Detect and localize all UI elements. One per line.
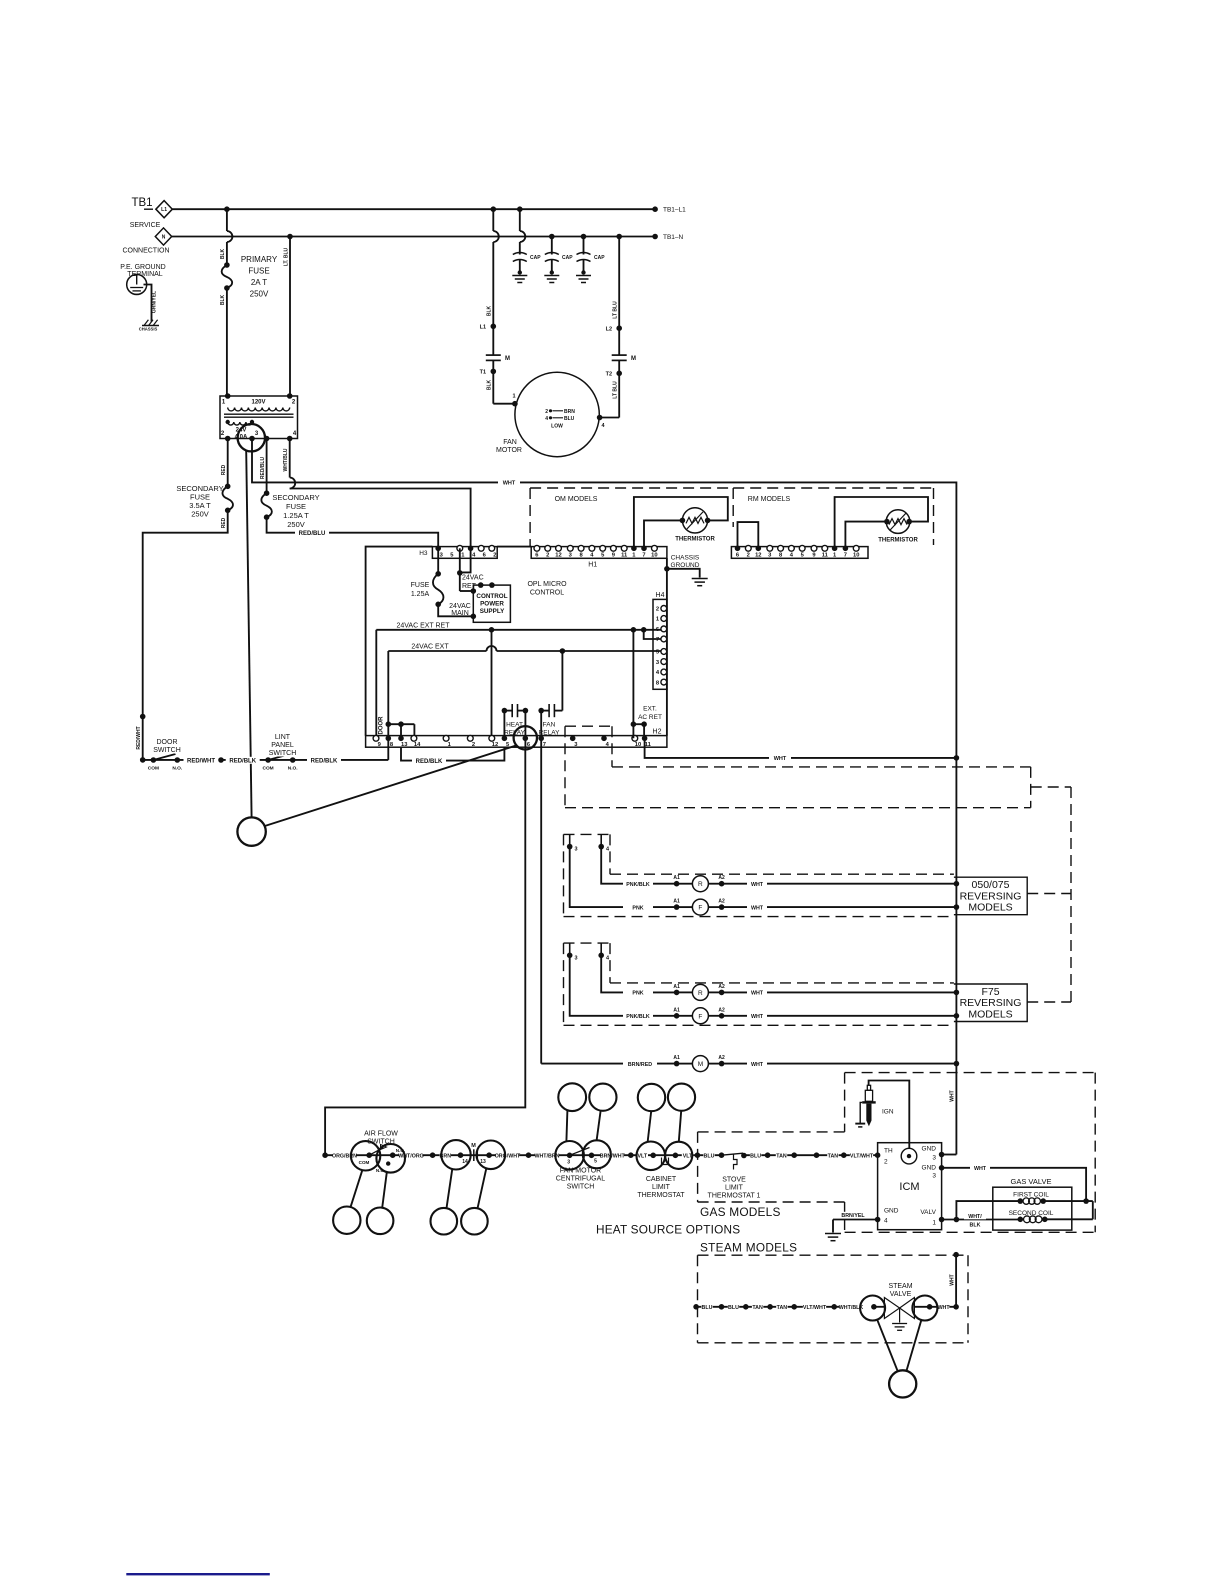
wire riser H2 pin 8 / door bbox=[387, 651, 389, 747]
gas valve box bbox=[993, 1187, 1072, 1230]
terminal L1 diamond bbox=[156, 201, 172, 218]
svg-text:BLU: BLU bbox=[564, 416, 575, 422]
splice circle bbox=[237, 817, 265, 845]
svg-text:12: 12 bbox=[755, 553, 761, 559]
svg-text:1.25A: 1.25A bbox=[411, 591, 430, 598]
ground symbol chassis bbox=[692, 578, 708, 580]
svg-text:L1: L1 bbox=[161, 207, 167, 213]
wire gas valve common bbox=[1092, 1201, 1094, 1219]
svg-text:BLU: BLU bbox=[702, 1305, 713, 1311]
contact M right bbox=[612, 354, 627, 356]
svg-text:WHT: WHT bbox=[938, 1305, 951, 1311]
relay coil F line bbox=[570, 955, 677, 1016]
cabinet limit thermostat bbox=[637, 1142, 666, 1171]
svg-text:VLT: VLT bbox=[637, 1153, 647, 1159]
control power supply box bbox=[473, 585, 510, 622]
svg-text:2: 2 bbox=[545, 409, 548, 415]
ICM pin GND 4 bbox=[875, 1217, 881, 1223]
svg-text:COM: COM bbox=[262, 766, 273, 772]
node L1 tap for primary fuse bbox=[224, 206, 230, 212]
stove limit thermostat bbox=[722, 1153, 744, 1155]
primary fuse F1 2A bbox=[224, 262, 230, 268]
svg-text:SWITCH: SWITCH bbox=[269, 750, 297, 757]
svg-text:BLK: BLK bbox=[220, 294, 226, 305]
wire 24VAC EXT RET bbox=[376, 629, 661, 631]
wire branch to H4 pin 7 bbox=[644, 630, 661, 639]
svg-text:CABINET: CABINET bbox=[646, 1176, 677, 1183]
svg-text:TERMINAL: TERMINAL bbox=[127, 271, 163, 278]
ICM pin GND 3 lower bbox=[939, 1165, 945, 1171]
svg-text:CONTROL: CONTROL bbox=[530, 590, 564, 597]
svg-text:SWITCH: SWITCH bbox=[367, 1139, 395, 1146]
svg-text:24VAC EXT: 24VAC EXT bbox=[411, 643, 449, 650]
svg-text:10: 10 bbox=[853, 553, 859, 559]
svg-text:LT BLU: LT BLU bbox=[613, 301, 619, 319]
plug pin 3 bbox=[569, 943, 571, 955]
svg-text:SERVICE: SERVICE bbox=[130, 222, 161, 229]
wire GND3 to WHT bus bbox=[942, 1154, 957, 1156]
wire H2 pin7 down bbox=[540, 747, 542, 1063]
svg-text:TB1–L1: TB1–L1 bbox=[663, 207, 686, 214]
svg-text:A2: A2 bbox=[718, 899, 725, 905]
wire RED to door switch bbox=[143, 510, 228, 760]
svg-text:TH: TH bbox=[884, 1148, 893, 1155]
svg-text:CAP: CAP bbox=[530, 255, 541, 261]
svg-text:SWITCH: SWITCH bbox=[567, 1184, 595, 1191]
svg-text:OPL MICRO: OPL MICRO bbox=[527, 581, 567, 588]
wire RM pin7 to RM thermistor bbox=[845, 522, 887, 549]
svg-text:11: 11 bbox=[645, 742, 652, 748]
dashed box OM MODELS bbox=[529, 488, 531, 547]
svg-text:WHT: WHT bbox=[774, 756, 787, 762]
svg-text:CHASSIS: CHASSIS bbox=[671, 555, 700, 562]
node RED/WHT bbox=[140, 714, 146, 720]
svg-text:THERMISTOR: THERMISTOR bbox=[878, 538, 918, 544]
callout leader line from pin 6 to splice circle bbox=[265, 745, 517, 826]
svg-text:10: 10 bbox=[635, 742, 641, 748]
steam valve left terminal bbox=[860, 1296, 885, 1321]
gas chain BLU TAN TAN VLT/WHT bbox=[750, 1153, 761, 1159]
wire BLK down with hop over N bbox=[226, 209, 228, 231]
svg-text:WHT: WHT bbox=[751, 1014, 764, 1020]
svg-text:GND: GND bbox=[884, 1208, 899, 1215]
svg-text:THERMOSTAT: THERMOSTAT bbox=[637, 1192, 685, 1199]
svg-text:CONNECTION: CONNECTION bbox=[122, 248, 169, 255]
svg-text:CENTRIFUGAL: CENTRIFUGAL bbox=[556, 1176, 606, 1183]
svg-text:BLU: BLU bbox=[704, 1153, 715, 1159]
svg-text:T2: T2 bbox=[606, 372, 612, 378]
svg-text:WHT/BLU: WHT/BLU bbox=[283, 448, 289, 471]
svg-text:F75: F75 bbox=[981, 986, 999, 998]
gas chain BLU bbox=[703, 1153, 714, 1159]
node L1 motor bbox=[491, 324, 497, 330]
wire H1 pin7 to OM thermistor bbox=[644, 520, 682, 548]
wire L1 bus bbox=[172, 208, 655, 210]
fan motor circle bbox=[515, 372, 599, 456]
svg-text:12: 12 bbox=[492, 742, 498, 748]
svg-text:THERMISTOR: THERMISTOR bbox=[675, 537, 715, 543]
transformer pin 1 bbox=[225, 393, 231, 399]
svg-text:PNK/BLK: PNK/BLK bbox=[626, 1014, 650, 1020]
callout circle at transformer pin 3 bbox=[238, 424, 265, 451]
svg-text:3: 3 bbox=[567, 1159, 570, 1165]
svg-text:LT. BLU: LT. BLU bbox=[284, 247, 290, 266]
svg-text:L1: L1 bbox=[480, 325, 486, 331]
ICM pin GND 3 upper bbox=[939, 1152, 945, 1158]
chassis ground symbol bbox=[142, 325, 159, 327]
fan motor centrifugal switch bbox=[555, 1141, 584, 1170]
connector H1 box bbox=[531, 547, 667, 559]
svg-text:BRN/WHT: BRN/WHT bbox=[600, 1153, 626, 1159]
svg-text:BLK: BLK bbox=[970, 1222, 981, 1228]
gas chain line bbox=[697, 1154, 721, 1156]
footer rule bbox=[126, 1573, 269, 1575]
svg-text:2A T: 2A T bbox=[251, 278, 267, 287]
wire N bus bbox=[172, 236, 655, 238]
svg-text:FAN MOTOR: FAN MOTOR bbox=[560, 1168, 601, 1175]
svg-text:DOOR: DOOR bbox=[379, 716, 385, 735]
svg-text:WHT/ORG: WHT/ORG bbox=[398, 1153, 424, 1159]
air flow switch bbox=[351, 1141, 380, 1170]
plug pin 4 bbox=[600, 834, 602, 846]
svg-text:WHT: WHT bbox=[950, 1090, 956, 1101]
steam valve symbol bbox=[874, 1306, 885, 1308]
air flow switch connector callouts bbox=[333, 1207, 360, 1234]
svg-text:R: R bbox=[698, 990, 703, 997]
svg-text:LIMIT: LIMIT bbox=[725, 1185, 744, 1192]
node N tap for transformer bbox=[287, 234, 293, 240]
node TB1-N bbox=[652, 234, 658, 240]
svg-text:3: 3 bbox=[932, 1155, 936, 1162]
svg-text:250V: 250V bbox=[250, 290, 269, 299]
svg-text:L2: L2 bbox=[606, 326, 612, 332]
svg-text:11: 11 bbox=[822, 553, 829, 559]
relay coil F line bbox=[570, 847, 677, 908]
svg-text:24VAC: 24VAC bbox=[462, 575, 484, 582]
wire door switch line bbox=[143, 759, 389, 761]
ICM spark terminal bbox=[901, 1148, 917, 1164]
svg-text:SWITCH: SWITCH bbox=[153, 747, 181, 754]
svg-text:COM: COM bbox=[359, 1160, 370, 1165]
wire WHT bus vertical bbox=[955, 758, 957, 1155]
svg-text:TAN: TAN bbox=[777, 1305, 788, 1311]
svg-text:BLK: BLK bbox=[220, 248, 226, 259]
svg-text:GROUND: GROUND bbox=[671, 562, 700, 569]
capacitor CAP1 bbox=[519, 209, 521, 231]
svg-text:H4: H4 bbox=[656, 592, 665, 599]
svg-text:250V: 250V bbox=[287, 520, 305, 529]
wire LT. BLU to transformer bbox=[289, 237, 291, 397]
svg-text:VLT/WHT: VLT/WHT bbox=[850, 1153, 874, 1159]
svg-text:LIMIT: LIMIT bbox=[652, 1184, 671, 1191]
svg-text:M: M bbox=[631, 356, 636, 362]
svg-text:GAS VALVE: GAS VALVE bbox=[1011, 1177, 1052, 1186]
steam valve connector callout bbox=[889, 1370, 916, 1397]
svg-text:REVERSING: REVERSING bbox=[960, 890, 1022, 902]
svg-text:CAP: CAP bbox=[562, 255, 573, 261]
svg-text:STOVE: STOVE bbox=[722, 1177, 746, 1184]
node N tap LT BLU motor bbox=[616, 234, 622, 240]
svg-text:MODELS: MODELS bbox=[968, 1008, 1012, 1020]
svg-text:H1: H1 bbox=[588, 562, 597, 569]
svg-text:FAN: FAN bbox=[503, 439, 517, 446]
P.E. ground terminal symbol bbox=[127, 275, 147, 295]
svg-text:RED/BLK: RED/BLK bbox=[229, 758, 256, 764]
wire to fan motor pin 1 bbox=[493, 403, 515, 405]
node N tap CAP3 bbox=[581, 234, 587, 240]
ground symbol steam valve bbox=[892, 1323, 907, 1325]
svg-text:VALVE: VALVE bbox=[890, 1291, 912, 1298]
svg-text:A1: A1 bbox=[673, 984, 680, 990]
steam chain labels bbox=[701, 1304, 712, 1310]
transformer pin 2 bottom bbox=[225, 436, 231, 442]
ground symbol ICM bbox=[825, 1233, 841, 1235]
wire RED/BLK H2 pin13 to pin5 bbox=[401, 747, 504, 760]
svg-text:2: 2 bbox=[747, 553, 750, 559]
svg-text:BRN: BRN bbox=[564, 409, 575, 415]
svg-text:1: 1 bbox=[512, 394, 515, 400]
svg-text:BLK: BLK bbox=[487, 305, 493, 316]
svg-text:PNK/BLK: PNK/BLK bbox=[626, 882, 650, 888]
svg-text:14: 14 bbox=[462, 1159, 468, 1165]
svg-text:A2: A2 bbox=[718, 1007, 725, 1013]
model label bracket bbox=[954, 984, 1027, 1022]
svg-text:REVERSING: REVERSING bbox=[960, 997, 1022, 1009]
svg-text:BLK: BLK bbox=[487, 379, 493, 390]
chain node dots left bbox=[430, 1152, 436, 1158]
ICM pin VALV 1 bbox=[939, 1217, 945, 1223]
svg-text:AC RET: AC RET bbox=[638, 714, 662, 721]
wire 24VAC RET from H3 pins 1,4 bbox=[459, 548, 461, 591]
steam chain line bbox=[693, 1304, 699, 1310]
wire igniter to ICM spark terminal bbox=[869, 1081, 910, 1149]
terminal N diamond bbox=[155, 228, 171, 245]
svg-text:A1: A1 bbox=[673, 875, 680, 881]
svg-text:3: 3 bbox=[575, 847, 578, 853]
svg-text:TAN: TAN bbox=[828, 1153, 839, 1159]
svg-text:2: 2 bbox=[656, 607, 659, 613]
svg-text:MAIN: MAIN bbox=[451, 610, 469, 617]
svg-text:7: 7 bbox=[844, 553, 847, 559]
svg-text:RED/BLK: RED/BLK bbox=[416, 759, 443, 765]
transformer pin 4 bbox=[287, 436, 293, 442]
transformer core bbox=[224, 413, 294, 415]
wire LT BLU to L2 contact bbox=[618, 237, 620, 356]
transformer primary winding bbox=[228, 408, 290, 411]
svg-text:4: 4 bbox=[545, 416, 548, 422]
jumper RM pins 6-12 bbox=[738, 522, 759, 548]
thermistor RT1 (OM) bbox=[682, 508, 707, 533]
svg-text:WHT: WHT bbox=[751, 991, 764, 997]
svg-text:1.25A T: 1.25A T bbox=[283, 511, 309, 520]
svg-text:A1: A1 bbox=[673, 899, 680, 905]
svg-text:GRN/YEL: GRN/YEL bbox=[152, 291, 158, 313]
wire riser H2 pin 9 bbox=[375, 630, 377, 736]
control board outline bbox=[366, 547, 433, 736]
svg-text:BLU: BLU bbox=[728, 1305, 739, 1311]
svg-text:7: 7 bbox=[543, 742, 546, 748]
svg-text:GND: GND bbox=[922, 1165, 937, 1172]
node T1 bbox=[492, 360, 494, 403]
node WHT on steam box edge bbox=[953, 1252, 959, 1258]
svg-text:PRIMARY: PRIMARY bbox=[241, 255, 278, 264]
svg-text:WHT: WHT bbox=[503, 481, 516, 487]
fan motor pin 4 bbox=[597, 415, 603, 421]
chain node VLT right bbox=[695, 1152, 701, 1158]
fan relay contact K2 bbox=[538, 708, 544, 714]
callout circle at H2 pin 6 bbox=[514, 726, 537, 749]
svg-text:A1: A1 bbox=[673, 1055, 680, 1061]
svg-text:M: M bbox=[471, 1143, 476, 1149]
svg-text:LINT: LINT bbox=[275, 734, 291, 741]
door switch M contacts 14-13 bbox=[441, 1140, 470, 1169]
node L1 tap CAP1 bbox=[517, 206, 523, 212]
wire RED/BLU to H3 pin 3 bbox=[267, 517, 439, 548]
svg-text:COM: COM bbox=[148, 766, 159, 772]
svg-text:RET: RET bbox=[462, 583, 477, 590]
svg-text:ORG/WHT: ORG/WHT bbox=[495, 1153, 521, 1159]
svg-text:CONTROL: CONTROL bbox=[476, 593, 507, 600]
dashed box reversing group bbox=[563, 943, 565, 1025]
svg-text:DOOR: DOOR bbox=[157, 739, 178, 746]
wire RM pin1 to RM thermistor bbox=[835, 497, 928, 548]
chain node BRN/WHT bbox=[628, 1152, 634, 1158]
svg-text:FAN: FAN bbox=[543, 722, 556, 729]
svg-text:H3: H3 bbox=[419, 550, 428, 557]
svg-text:BRN/YEL: BRN/YEL bbox=[841, 1213, 865, 1219]
svg-text:AIR FLOW: AIR FLOW bbox=[364, 1131, 398, 1138]
svg-text:A1: A1 bbox=[673, 1007, 680, 1013]
motor contactor M coil line bbox=[541, 1063, 676, 1065]
capacitor CAP3 bbox=[583, 237, 585, 255]
svg-text:TAN: TAN bbox=[752, 1305, 763, 1311]
wire RED/BLU from transformer bbox=[266, 439, 268, 494]
wire BRN/YEL to ground bbox=[833, 1219, 878, 1221]
connector H3 box bbox=[432, 547, 497, 559]
steam valve right terminal bbox=[912, 1296, 937, 1321]
wire 24VAC MAIN to power supply bbox=[438, 604, 473, 616]
thermistor RT2 (RM) bbox=[886, 510, 910, 534]
dashed box GAS MODELS bbox=[845, 1072, 1096, 1074]
svg-text:STEAM: STEAM bbox=[888, 1283, 912, 1290]
dashed line below H2 pins 3-4 bbox=[565, 725, 612, 727]
svg-text:WHT/: WHT/ bbox=[968, 1214, 982, 1220]
transformer pin 3 bbox=[249, 436, 255, 442]
svg-text:14: 14 bbox=[414, 742, 421, 748]
connector RM box bbox=[731, 547, 868, 559]
svg-text:GND: GND bbox=[922, 1146, 937, 1153]
svg-text:VLT/WHT: VLT/WHT bbox=[803, 1305, 827, 1311]
wire GRN/YEL to chassis bbox=[144, 285, 152, 322]
svg-text:M: M bbox=[698, 1061, 703, 1068]
svg-text:RED/BLU: RED/BLU bbox=[299, 531, 326, 537]
transformer bottom junction RED/BLU bbox=[264, 436, 270, 442]
chain wire labels bbox=[333, 1153, 356, 1159]
svg-text:RED/BLK: RED/BLK bbox=[311, 758, 338, 764]
svg-text:ORG/BRN: ORG/BRN bbox=[332, 1153, 357, 1159]
svg-text:T1: T1 bbox=[480, 370, 486, 376]
svg-text:3: 3 bbox=[575, 955, 578, 961]
wire RED from transformer pin 2 bbox=[227, 439, 229, 487]
svg-text:N.O.: N.O. bbox=[172, 766, 182, 772]
plug pin 3 bbox=[569, 834, 571, 846]
svg-text:FUSE: FUSE bbox=[286, 502, 306, 511]
svg-text:N.C.: N.C. bbox=[376, 1168, 385, 1173]
svg-text:24VAC EXT RET: 24VAC EXT RET bbox=[396, 622, 450, 629]
svg-text:SUPPLY: SUPPLY bbox=[480, 608, 505, 615]
svg-text:A2: A2 bbox=[718, 875, 725, 881]
svg-text:R: R bbox=[698, 881, 703, 888]
svg-text:LOW: LOW bbox=[551, 424, 563, 430]
secondary fuse F3 1.25A bbox=[264, 490, 270, 496]
contact M left bbox=[486, 354, 501, 356]
chain node ORG/WHT bbox=[526, 1152, 532, 1158]
node T2 bbox=[618, 360, 620, 417]
svg-text:EXT.: EXT. bbox=[643, 706, 657, 713]
svg-text:WHT: WHT bbox=[751, 1062, 764, 1068]
svg-text:PNK: PNK bbox=[632, 905, 643, 911]
svg-text:13: 13 bbox=[480, 1159, 486, 1165]
svg-text:RM MODELS: RM MODELS bbox=[748, 496, 791, 503]
svg-text:THERMOSTAT 1: THERMOSTAT 1 bbox=[708, 1193, 761, 1200]
svg-text:F: F bbox=[698, 905, 702, 912]
svg-text:TAN: TAN bbox=[776, 1153, 787, 1159]
svg-text:SECONDARY: SECONDARY bbox=[272, 493, 319, 502]
dashed pipe to model labels bbox=[1031, 786, 1071, 788]
plug pin 4 bbox=[600, 943, 602, 955]
svg-text:PNK: PNK bbox=[632, 991, 643, 997]
svg-text:GAS MODELS: GAS MODELS bbox=[700, 1205, 781, 1219]
svg-text:RED/WHT: RED/WHT bbox=[136, 726, 142, 749]
node TB1-L1 bbox=[652, 206, 658, 212]
svg-text:WHT: WHT bbox=[950, 1274, 956, 1285]
svg-text:N.O.: N.O. bbox=[288, 766, 298, 772]
ground CAP3 bbox=[581, 270, 585, 274]
transformer T1 box bbox=[220, 396, 298, 439]
ICM pin TH 2 bbox=[875, 1152, 881, 1158]
ground CAP1 bbox=[518, 270, 522, 274]
svg-text:N: N bbox=[162, 234, 166, 240]
svg-text:POWER: POWER bbox=[480, 601, 504, 608]
door switch S1 bbox=[151, 757, 157, 763]
svg-text:2: 2 bbox=[472, 742, 475, 748]
relay coil R line bbox=[601, 847, 676, 884]
wire to fan motor pin 4 bbox=[600, 417, 620, 419]
wire WHT/BLU from transformer pin 4 bbox=[289, 439, 291, 478]
svg-text:BLU: BLU bbox=[750, 1153, 761, 1159]
svg-text:LT BLU: LT BLU bbox=[613, 381, 619, 399]
door interlock bracket bbox=[386, 721, 392, 727]
svg-text:2: 2 bbox=[546, 553, 549, 559]
svg-text:CAP: CAP bbox=[594, 255, 605, 261]
wire BLK to L1 contact bbox=[492, 209, 494, 231]
svg-text:RED: RED bbox=[221, 517, 227, 528]
svg-text:N.O.: N.O. bbox=[396, 1148, 405, 1153]
svg-text:P.E. GROUND: P.E. GROUND bbox=[120, 264, 165, 271]
svg-text:VALV: VALV bbox=[920, 1209, 936, 1216]
transformer secondary winding 24V 4.0A bbox=[228, 422, 252, 425]
centrifugal switch connector callouts bbox=[558, 1083, 586, 1111]
svg-text:A2: A2 bbox=[718, 984, 725, 990]
svg-text:H2: H2 bbox=[653, 729, 662, 736]
svg-text:12: 12 bbox=[555, 553, 561, 559]
svg-text:4: 4 bbox=[884, 1218, 888, 1225]
svg-text:STEAM MODELS: STEAM MODELS bbox=[700, 1241, 797, 1255]
svg-text:OM MODELS: OM MODELS bbox=[555, 496, 598, 503]
fan motor pin 1 bbox=[512, 401, 518, 407]
svg-text:RED/BLU: RED/BLU bbox=[260, 457, 266, 480]
svg-text:5: 5 bbox=[594, 1158, 597, 1164]
